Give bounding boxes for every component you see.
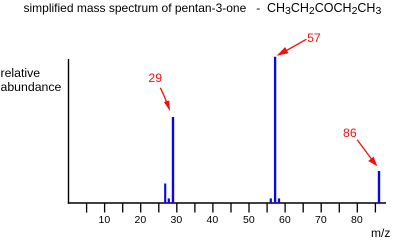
y-axis [68, 59, 70, 204]
axis ticks m/z 5-85 [87, 203, 376, 213]
tick label 70 [315, 215, 327, 226]
red label 57 [307, 32, 321, 44]
title [24, 2, 382, 15]
red label 86 [343, 127, 357, 139]
tick label 10 [99, 215, 111, 226]
tick label 80 [351, 215, 363, 226]
tick label 30 [171, 215, 183, 226]
arrow to peak 57 [277, 39, 307, 56]
x-axis [68, 202, 386, 204]
x-axis label m/z [371, 227, 390, 239]
peak m/z 57 [274, 57, 276, 203]
red label 29 [148, 72, 162, 84]
peak m/z 28 [168, 198, 170, 203]
tick label 40 [207, 215, 219, 226]
tick label 60 [279, 215, 291, 226]
arrow to peak 29 [160, 88, 170, 111]
y-axis label [1, 66, 62, 95]
peak m/z 56 [270, 198, 272, 203]
peak m/z 27 [164, 184, 166, 204]
peak m/z 29 (base peak region) [172, 117, 174, 203]
arrow to peak 86 [357, 140, 377, 167]
tick label 50 [243, 215, 255, 226]
peak m/z 86 (molecular ion) [378, 171, 380, 203]
peak m/z 58 [278, 198, 280, 203]
tick label 20 [135, 215, 147, 226]
